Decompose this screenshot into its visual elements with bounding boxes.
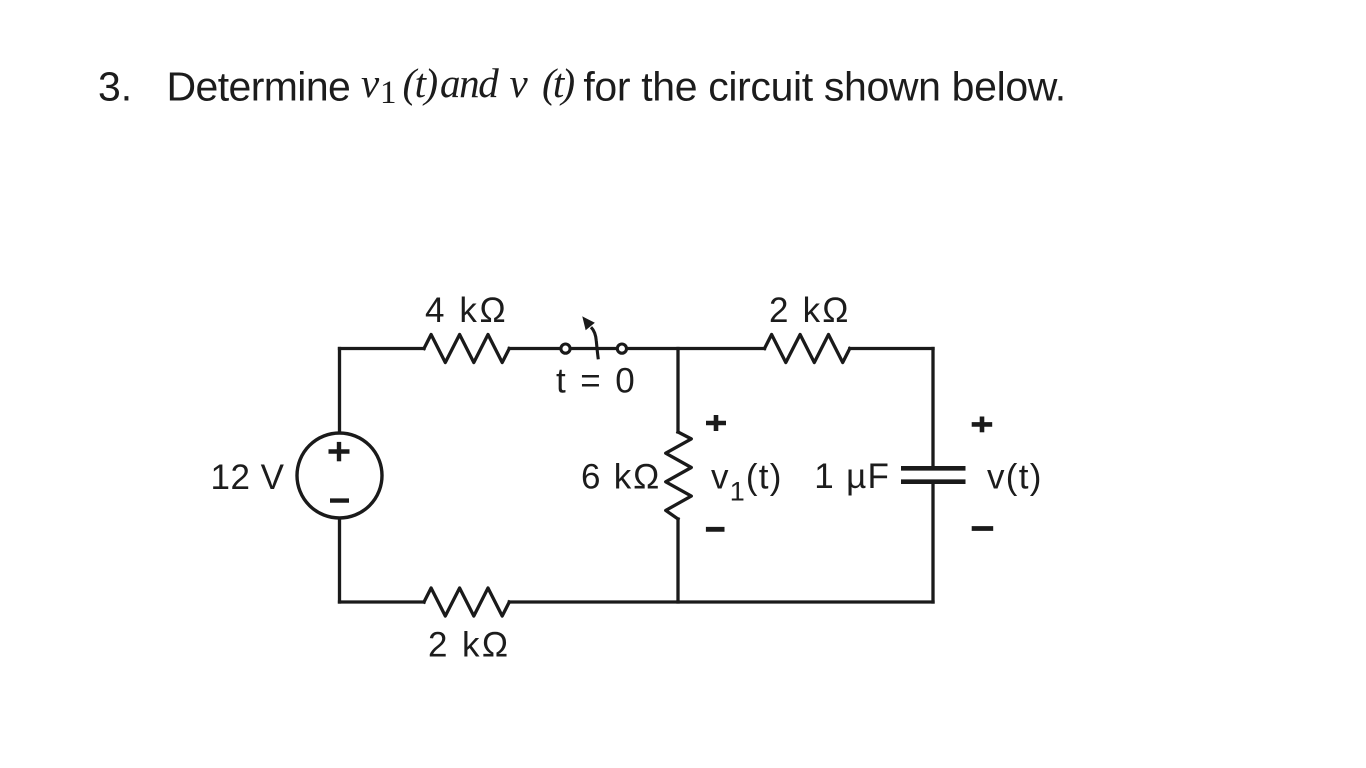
switch S1 arrowhead: [584, 318, 594, 329]
switch S1 right terminal circle: [617, 344, 626, 353]
voltage source V1 12 V circle: [297, 433, 382, 518]
resistor R3 6 kOhm (middle branch): [666, 432, 692, 519]
svg-text:6 kΩ: 6 kΩ: [581, 458, 661, 497]
wire left upper: [338, 349, 341, 434]
capacitor C1 1 uF top plate: [901, 466, 966, 471]
plus polarity mark for v(t): [972, 417, 993, 433]
svg-text:12 V: 12 V: [211, 458, 285, 497]
wire node B branch lower: [676, 519, 679, 602]
resistor R2 2 kOhm (top right): [765, 335, 850, 363]
svg-text:3.: 3.: [98, 64, 132, 110]
svg-text:2 kΩ: 2 kΩ: [769, 291, 851, 330]
svg-text:1: 1: [380, 75, 397, 111]
svg-text:t = 0: t = 0: [556, 362, 637, 401]
svg-text:(t): (t): [403, 60, 438, 106]
svg-text:v: v: [361, 60, 380, 106]
svg-text:v(t): v(t): [987, 458, 1043, 497]
wire right lower: [931, 484, 934, 602]
wire top right segment: [850, 347, 933, 350]
resistor R1 4 kOhm (top left): [424, 335, 509, 363]
wire top left segment: [340, 347, 425, 350]
svg-text:4 kΩ: 4 kΩ: [425, 291, 508, 330]
minus polarity mark for v(t): [972, 526, 994, 531]
svg-text:v: v: [510, 60, 529, 106]
svg-text:1 µF: 1 µF: [814, 457, 890, 496]
switch S1 opening-motion arrow arc: [591, 327, 598, 359]
wire bottom right segment: [509, 600, 933, 603]
wire top middle segment through switch S1 to node A: [509, 347, 764, 350]
svg-text:(t): (t): [542, 60, 574, 106]
svg-text:2 kΩ: 2 kΩ: [428, 626, 510, 665]
plus polarity mark for v1(t): [706, 415, 726, 431]
wire bottom left segment: [340, 600, 425, 603]
svg-text:Determine: Determine: [167, 64, 351, 110]
svg-text:for the circuit shown below.: for the circuit shown below.: [583, 64, 1065, 110]
wire node A branch upper: [676, 349, 679, 433]
wire left lower: [338, 518, 341, 603]
switch S1 left terminal circle: [561, 344, 570, 353]
wire right upper: [931, 349, 934, 467]
voltage source V1 minus terminal mark: [330, 498, 349, 502]
capacitor C1 1 uF bottom plate: [901, 479, 966, 484]
voltage source V1 plus terminal mark: [329, 442, 350, 461]
resistor R4 2 kOhm (bottom): [424, 588, 509, 616]
svg-text:and: and: [440, 60, 499, 106]
svg-text:v1(t): v1(t): [711, 457, 783, 506]
minus polarity mark for v1(t): [706, 527, 725, 532]
